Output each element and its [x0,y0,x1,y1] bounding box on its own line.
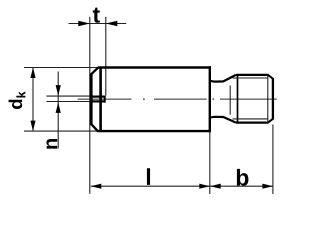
thread end chamfer line [267,75,269,123]
thread root bottom line [233,118,268,120]
arrowhead dk down [30,121,35,132]
arrowhead l right [199,184,210,189]
body: head bottom edge [97,130,210,132]
label t [93,8,100,23]
extension line n top slot [46,95,90,97]
slot depth line [99,67,102,132]
body: chamfer top-left [91,67,99,75]
extension line dk top [24,67,98,69]
thread top edge [236,74,269,76]
dimension line t [69,23,127,25]
dimension line n vertical [57,72,59,149]
extension line t left (continues down as l left extension) [89,17,91,194]
neck bottom profile [211,117,236,123]
body: head right face [209,66,211,132]
thread root top line [233,77,268,79]
arrowhead t right (outside, pointing left) [106,21,118,26]
neck top profile [211,75,236,82]
arrowhead n down [56,85,61,96]
extension line t right [105,17,107,96]
extension line b right [272,125,274,195]
full thread start line [237,75,239,123]
body: head top edge [98,66,211,68]
thread chamfer bottom-right [268,119,273,123]
centerline (dash-dot axis) [78,98,132,100]
arrowhead b left [210,184,221,189]
label n [46,139,57,149]
body: head left face [90,74,93,125]
arrowhead b right [262,184,273,189]
extension line dk bottom [24,130,97,132]
extension line n bottom slot [46,101,90,103]
slot bottom wall [90,100,105,102]
arrowhead n up [56,102,61,113]
thread undercut wall [229,86,231,115]
arrowhead l left [91,184,102,189]
dimension line dk [32,68,34,132]
thread right face [272,78,274,119]
thread chamfer top-right [268,75,273,79]
dimension line l and b [91,185,273,187]
extension line l right / b left [209,133,211,195]
arrowhead dk up [30,68,35,79]
label dk [9,91,26,109]
slot top wall [90,95,105,97]
arrowhead t left (outside, pointing right) [78,21,90,26]
body: chamfer bottom-left [91,124,98,132]
label b [237,169,249,186]
thread bottom edge [236,121,269,123]
slot bottom closure [104,96,106,103]
label l [147,168,150,185]
